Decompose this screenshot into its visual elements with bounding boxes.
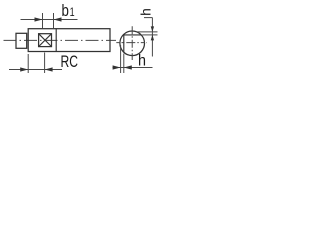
top h dim extension upper: [137, 31, 158, 33]
b1 arrow left: [54, 17, 62, 21]
RC arrow right: [20, 67, 28, 71]
bottom h arrow right: [113, 65, 121, 69]
bottom h dim line: [113, 67, 153, 69]
dimension RC line: [9, 69, 62, 71]
spring element box: [39, 34, 52, 47]
bottom h arrow left: [124, 65, 132, 69]
bottom h dim extension right: [123, 54, 125, 74]
body outline: [28, 29, 110, 52]
end view circle: [120, 31, 145, 56]
box diagonal 1: [39, 34, 52, 47]
dimension b1 line: [21, 19, 78, 21]
b1 arrow right: [35, 17, 43, 21]
svg-text:1: 1: [70, 7, 75, 19]
top h arrow up: [151, 35, 154, 41]
circle vertical centerline: [131, 26, 133, 60]
top h arrow down: [151, 26, 154, 32]
svg-text:h: h: [138, 53, 146, 70]
top h dim leader top: [144, 17, 152, 19]
nose rectangle (pad): [16, 33, 27, 48]
centerline side view: [4, 39, 117, 41]
RC arrow left: [45, 67, 53, 71]
dimension b1 extension line right: [53, 13, 55, 29]
flat chord top: [124, 34, 141, 36]
top h dim vertical line: [151, 18, 153, 57]
circle horizontal centerline: [116, 42, 146, 44]
bottom h dim extension left: [120, 45, 122, 73]
svg-text:RC: RC: [61, 53, 79, 71]
dimension b1 extension line left: [42, 13, 44, 29]
svg-text:b: b: [62, 2, 69, 20]
top h dim extension lower: [142, 34, 157, 36]
body inner line: [55, 29, 57, 52]
flat chord left: [123, 35, 125, 52]
dimension RC extension line left: [27, 54, 29, 73]
svg-text:h: h: [138, 8, 153, 16]
box diagonal 2: [39, 34, 52, 47]
dimension RC extension line right: [44, 53, 46, 74]
